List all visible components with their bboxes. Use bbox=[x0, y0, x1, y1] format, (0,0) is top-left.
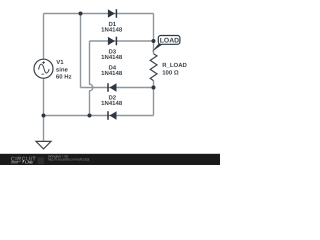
svg-text:100 Ω: 100 Ω bbox=[162, 69, 179, 76]
junction dot node LOAD (153.5,41) bbox=[152, 39, 156, 43]
svg-text:1N4148: 1N4148 bbox=[101, 70, 123, 77]
diode D2 bbox=[108, 111, 117, 120]
wire net B vertical with crossover hop (89.5,41)-(89.5,115.5) bbox=[90, 41, 93, 116]
footer logo underline dashes bbox=[11, 162, 21, 163]
diode D4 bbox=[108, 83, 117, 92]
diode D3 bbox=[108, 37, 117, 46]
wire top net A (43.5,13.5)-(153.5,13.5) bbox=[44, 13, 154, 15]
wire right vertical upper net LOAD (153.5,13.5)-(153.5,53.7) bbox=[153, 14, 155, 54]
wire net B horizontal to D3 (89.5,41)-(153.5,41) bbox=[90, 40, 154, 42]
wire net A horizontal to D4 (80.5,87.5)-(153.5,87.5) bbox=[81, 87, 154, 89]
svg-text:sine: sine bbox=[56, 66, 69, 73]
voltage source V1 bbox=[34, 59, 53, 78]
junction dot node B / D4 cathode (153.5,87.5) bbox=[152, 86, 156, 90]
ground bbox=[36, 141, 51, 149]
footer bar bbox=[0, 154, 220, 165]
junction dot net B bottom (89.5,115.5) bbox=[88, 114, 92, 118]
junction dot ground node (43.5,115.5) bbox=[42, 114, 46, 118]
resistor R_LOAD bbox=[150, 54, 157, 81]
svg-text:1N4148: 1N4148 bbox=[101, 100, 123, 107]
junction dot node A (80.5,13.5) bbox=[79, 12, 83, 16]
svg-text:60 Hz: 60 Hz bbox=[56, 74, 72, 81]
svg-text:1N4148: 1N4148 bbox=[101, 27, 123, 34]
svg-text:1N4148: 1N4148 bbox=[101, 54, 123, 61]
svg-text:LAB: LAB bbox=[25, 160, 33, 164]
wire right vertical lower (153.5,80.6)-(153.5,115.5) bbox=[153, 81, 155, 116]
wire ground stem (43.5,115.5)-(43.5,140.8) bbox=[43, 116, 45, 141]
wire left lower V1 minus lead (43.5,78)-(43.5,115.5) bbox=[43, 78, 45, 116]
svg-text:V1: V1 bbox=[56, 59, 64, 66]
net flag LOAD bbox=[152, 36, 180, 52]
wire left upper V1 plus lead (43.5,13.5)-(43.5,59.4) bbox=[43, 14, 45, 60]
svg-text:http://circuitlab.com/c/lcs2qt: http://circuitlab.com/c/lcs2qt bbox=[48, 158, 90, 162]
diode D1 bbox=[108, 9, 117, 18]
footer logo dark block bbox=[38, 157, 45, 164]
svg-text:LOAD: LOAD bbox=[160, 38, 179, 45]
footer logo lightning bolt bbox=[22, 160, 25, 164]
wire net A vertical (80.5,13.5)-(80.5,87.5) bbox=[80, 14, 82, 88]
svg-text:R_LOAD: R_LOAD bbox=[162, 62, 187, 69]
wire bottom net GND (43.5,115.5)-(153.5,115.5) bbox=[44, 115, 154, 117]
